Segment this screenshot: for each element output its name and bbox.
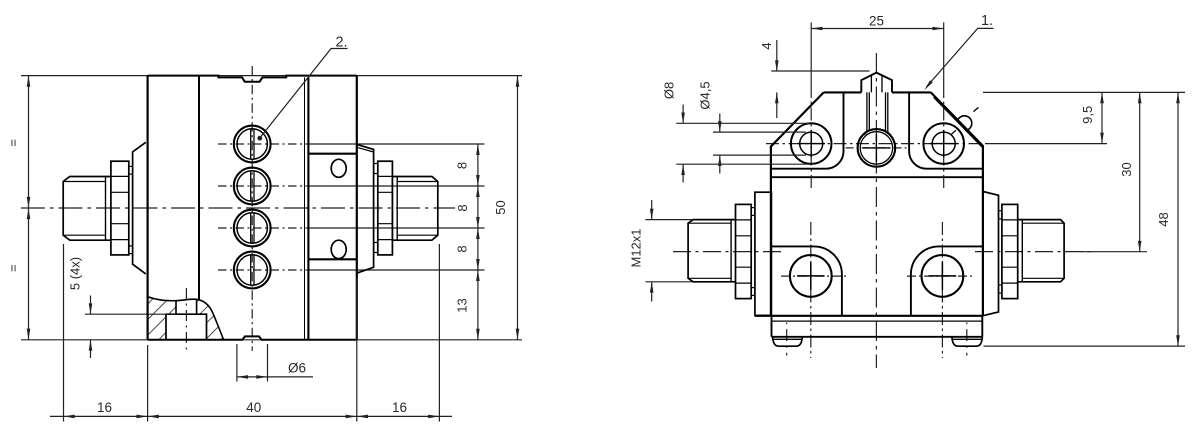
foot hatched section xyxy=(148,297,224,340)
RIGHTVIEW xyxy=(629,13,1186,368)
top hole left xyxy=(791,123,832,164)
left port thread xyxy=(688,220,735,282)
centerline port row D xyxy=(218,269,307,271)
port 4 xyxy=(234,252,271,289)
right tabs xyxy=(374,164,378,174)
svg-text:9,5: 9,5 xyxy=(1080,106,1095,124)
extension line bottom (50 dim) xyxy=(21,339,522,341)
right port flange xyxy=(983,192,999,316)
centerline side port axis left xyxy=(673,251,785,253)
svg-text:=: = xyxy=(6,264,21,272)
port 3 xyxy=(234,210,271,247)
svg-text:Ø8: Ø8 xyxy=(662,82,677,99)
dim bottom row extensions xyxy=(64,244,440,422)
chamfer second line xyxy=(934,97,983,147)
dim diameter 8 xyxy=(676,123,809,164)
centerline port row C xyxy=(218,227,307,229)
centerline foot right xyxy=(966,323,968,356)
dim 5(4x) extension xyxy=(85,313,176,315)
centerline port column xyxy=(251,66,253,351)
body inner line rotor right thin xyxy=(304,77,306,339)
centerline bolt right vertical xyxy=(943,85,945,189)
dim 30 xyxy=(1082,251,1147,253)
centerline foot xyxy=(185,288,187,352)
svg-text:5 (4x): 5 (4x) xyxy=(68,257,83,290)
svg-text:16: 16 xyxy=(97,400,112,415)
dim diameter 4,5 xyxy=(713,132,806,155)
boss corner right xyxy=(911,246,983,316)
right retainer disc xyxy=(357,145,373,273)
svg-text:8: 8 xyxy=(455,204,470,211)
svg-text:M12x1: M12x1 xyxy=(629,228,644,267)
flange slot hole top xyxy=(331,159,346,177)
right port thread xyxy=(1018,220,1064,282)
dim 25 xyxy=(811,22,944,85)
foot left xyxy=(773,337,803,346)
left retainer disc xyxy=(133,142,146,274)
body top edges xyxy=(824,91,931,93)
foot break line xyxy=(148,297,224,340)
dim M12x1 xyxy=(645,220,692,282)
top peg xyxy=(861,73,892,93)
body inner line flange face xyxy=(307,77,309,339)
port 2 xyxy=(234,168,271,205)
dim 9,5 xyxy=(983,91,1185,93)
center hole xyxy=(858,129,896,167)
body outline right chamfer xyxy=(931,92,983,316)
dim diameter 6 xyxy=(237,344,268,382)
flange slot hole bottom xyxy=(331,240,346,258)
foot right xyxy=(952,337,983,346)
centerline center hole horizontal xyxy=(846,147,908,149)
centerline bolt left vertical xyxy=(810,85,812,189)
dim 50 line xyxy=(517,76,519,340)
svg-text:8: 8 xyxy=(455,162,470,169)
peg stud lines xyxy=(871,75,882,93)
left thread stud xyxy=(63,177,111,241)
body outline xyxy=(147,76,149,340)
svg-text:Ø6: Ø6 xyxy=(288,361,306,376)
base plate xyxy=(772,316,983,337)
flange block xyxy=(308,154,356,260)
right nut xyxy=(378,161,393,255)
body inner line left section xyxy=(198,76,200,301)
body outline left xyxy=(771,92,824,316)
bottom hole right xyxy=(922,255,964,297)
centerline middle vertical xyxy=(875,53,877,368)
svg-text:1.: 1. xyxy=(981,13,993,29)
centerline side port axis right xyxy=(975,251,1091,253)
centerline bottom hole right xyxy=(907,275,972,277)
centerline foot left xyxy=(786,323,788,356)
svg-text:40: 40 xyxy=(246,400,261,415)
svg-text:13: 13 xyxy=(455,298,470,312)
left port tabs xyxy=(751,208,755,216)
head pocket left xyxy=(771,92,844,168)
top hole right xyxy=(923,123,964,164)
svg-text:=: = xyxy=(6,139,21,147)
centerline main axis xyxy=(21,207,455,209)
dim 48 xyxy=(984,345,1186,347)
screw shank lines xyxy=(867,92,888,131)
left nut xyxy=(111,161,129,255)
dim equal spacing line xyxy=(28,76,30,340)
dim bottom row line xyxy=(50,415,452,417)
centerline port row B xyxy=(218,185,307,187)
svg-text:4: 4 xyxy=(759,42,774,49)
LEFTVIEW xyxy=(6,34,523,421)
head pocket right xyxy=(909,92,983,168)
left port nut xyxy=(736,204,752,298)
centerline bottom hole left xyxy=(781,275,846,277)
svg-text:Ø4,5: Ø4,5 xyxy=(698,81,713,109)
head split line xyxy=(771,176,983,178)
svg-text:8: 8 xyxy=(455,245,470,252)
svg-text:30: 30 xyxy=(1119,162,1134,176)
boss corner left xyxy=(771,246,842,316)
dim 8-8-8-13 line xyxy=(477,144,479,340)
dim 4 xyxy=(776,40,778,118)
left port flange xyxy=(755,192,772,315)
ball detent on chamfer xyxy=(957,116,972,131)
svg-text:48: 48 xyxy=(1156,212,1171,226)
centerline top holes horizontal xyxy=(766,143,985,145)
dim 5 (4x) xyxy=(90,296,92,359)
port 1 xyxy=(234,126,271,163)
body bottom edge xyxy=(755,315,983,317)
svg-text:25: 25 xyxy=(869,14,884,29)
svg-text:16: 16 xyxy=(392,400,407,415)
right port tabs xyxy=(999,211,1002,219)
bottom hole left xyxy=(790,255,832,297)
foot slot clearance xyxy=(177,300,196,314)
foot screw clearance box xyxy=(166,314,207,340)
left tabs xyxy=(129,166,133,174)
extension line top (50 dim) xyxy=(21,75,522,77)
svg-text:50: 50 xyxy=(493,200,508,214)
centerline port row A xyxy=(218,143,307,145)
right port nut xyxy=(1002,204,1018,298)
right thread stud xyxy=(392,177,437,241)
